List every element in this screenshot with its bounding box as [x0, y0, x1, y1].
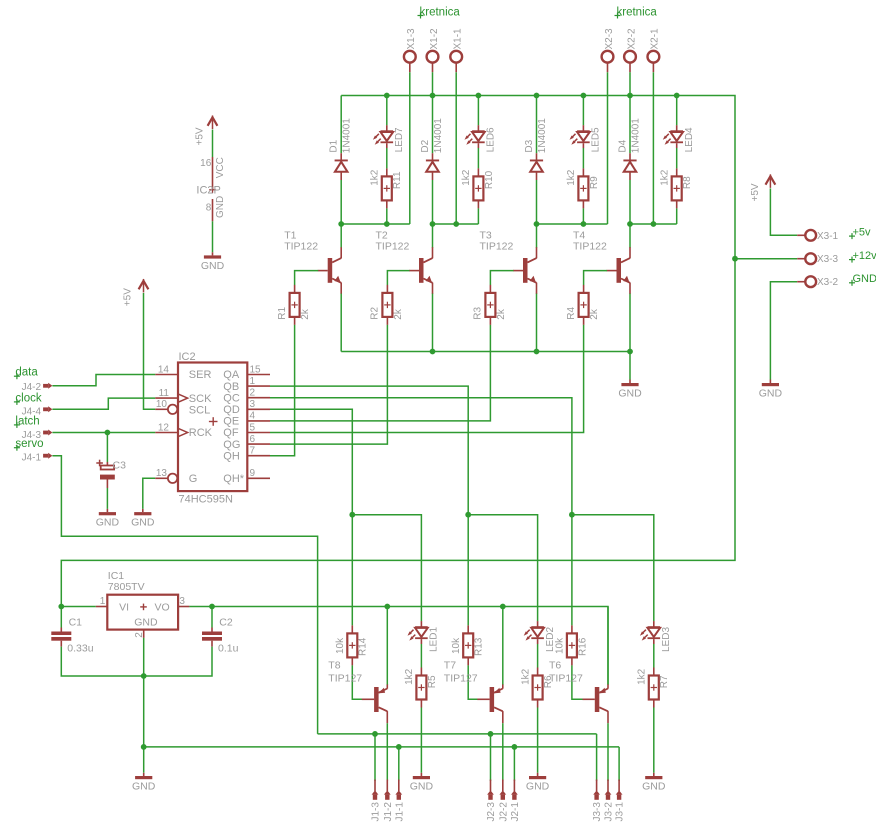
- connector pin J1-2: [384, 780, 391, 800]
- junction on +12V bus x=536.5: [534, 93, 540, 99]
- ground (R5): [410, 776, 434, 793]
- svg-text:SCK: SCK: [189, 393, 212, 405]
- svg-text:GND: GND: [131, 517, 155, 529]
- diode D1 1N4001: [335, 153, 348, 180]
- svg-text:J2-2: J2-2: [498, 802, 509, 822]
- net label data: [14, 367, 38, 380]
- svg-text:5: 5: [250, 422, 256, 433]
- svg-text:1N4001: 1N4001: [537, 118, 548, 153]
- +5V supply arrow (SCL pull): [122, 279, 148, 306]
- wire QE (pin4) to R3: [270, 325, 490, 421]
- junction emitter T3: [534, 349, 540, 355]
- wire +12V top bus: [341, 96, 735, 259]
- junction rail x=341.2: [338, 221, 344, 227]
- resistor R4 2k (base): [579, 285, 589, 325]
- svg-text:LED7: LED7: [394, 127, 405, 152]
- svg-text:3: 3: [250, 399, 256, 410]
- svg-text:2k: 2k: [589, 308, 600, 320]
- resistor R1 2k (base): [290, 285, 300, 325]
- svg-text:QF: QF: [223, 427, 239, 439]
- svg-text:1k2: 1k2: [404, 668, 415, 685]
- svg-text:T6: T6: [549, 660, 561, 672]
- svg-text:J1-3: J1-3: [371, 802, 382, 822]
- svg-text:J3-3: J3-3: [592, 802, 603, 822]
- ground (R6): [526, 776, 550, 793]
- junction T8 emitter: [384, 604, 390, 610]
- wire branch QC to LED3: [572, 515, 654, 622]
- wire C3 to gnd: [106, 488, 108, 509]
- transistor T8 TIP127 (PNP darlington): [362, 684, 388, 723]
- svg-text:1k2: 1k2: [370, 169, 381, 186]
- svg-text:GND: GND: [201, 260, 225, 272]
- svg-text:J2-1: J2-1: [510, 802, 521, 822]
- LED LED7: [373, 125, 393, 148]
- net label +12v (X3): [849, 250, 876, 263]
- wire base of T1 to R1: [295, 271, 319, 285]
- svg-text:C1: C1: [69, 617, 83, 629]
- transistor T4 TIP122 (NPN darlington): [607, 247, 631, 294]
- pin 3 VO: [178, 596, 189, 607]
- pin 4 (Q output): [247, 411, 270, 422]
- wire bus to LED7: [386, 96, 388, 126]
- svg-text:X2-1: X2-1: [650, 28, 661, 50]
- junction QB/LED2: [465, 512, 471, 518]
- resistor R16 10k (base): [567, 625, 577, 665]
- wire LED1 to R5: [420, 644, 422, 668]
- ground (emitter bus): [618, 383, 642, 400]
- svg-text:J1-1: J1-1: [394, 802, 405, 822]
- svg-text:QG: QG: [223, 439, 240, 451]
- ground (X3-2): [759, 383, 783, 400]
- wire bus to D1: [340, 96, 342, 154]
- connector pad X1-2: [427, 51, 439, 72]
- connector pad X2-3: [602, 51, 614, 72]
- wire collector rail T4: [630, 223, 677, 225]
- svg-text:C3: C3: [113, 459, 127, 471]
- pin 16 VCC (IC2P): [200, 157, 226, 190]
- connector pin J1-1: [395, 780, 402, 800]
- junction emitter T2: [430, 349, 436, 355]
- connector pin J3-1: [616, 780, 623, 800]
- pin stub R6 gnd: [537, 773, 539, 776]
- svg-text:7: 7: [250, 446, 256, 457]
- transistor T1 TIP122 (NPN darlington): [318, 247, 342, 294]
- junction on +12V bus x=676.7: [674, 93, 680, 99]
- svg-text:1k2: 1k2: [660, 169, 671, 186]
- svg-text:QA: QA: [223, 369, 240, 381]
- connector pin J4-2: [43, 383, 52, 389]
- connector pin J3-2: [605, 780, 612, 800]
- svg-text:+5V: +5V: [122, 288, 133, 306]
- wire R9 to rail: [582, 208, 584, 224]
- junction gnd J2-1: [512, 744, 518, 750]
- svg-text:X3-1: X3-1: [817, 231, 839, 242]
- svg-text:GND: GND: [132, 781, 156, 793]
- connector pin J4-1: [43, 453, 52, 459]
- wire base of T3 to R3: [490, 271, 513, 285]
- svg-text:TIP122: TIP122: [480, 241, 514, 253]
- svg-text:GND: GND: [215, 196, 226, 218]
- wire base of T2 to R2: [387, 271, 409, 285]
- net label kretnica (right): [615, 7, 658, 19]
- wire LED5 to R9: [582, 148, 584, 168]
- connector pad X2-2: [624, 51, 636, 72]
- svg-text:T7: T7: [444, 660, 456, 672]
- wire X2-2 to bus: [629, 72, 631, 95]
- ground (pin 13 G): [131, 512, 155, 529]
- svg-text:G: G: [189, 473, 198, 485]
- wire R14 to T8 base: [352, 665, 362, 699]
- LED LED1 (indicator): [408, 621, 428, 644]
- pin 11 SCK: [155, 388, 178, 399]
- wire rail to T2 collector: [432, 224, 434, 248]
- pin stub to gnd: [212, 252, 214, 255]
- svg-text:TIP122: TIP122: [573, 241, 607, 253]
- svg-text:LED1: LED1: [429, 627, 440, 652]
- wire J3-1 drop: [618, 747, 620, 781]
- svg-text:10k: 10k: [451, 637, 462, 654]
- wire rail to T4 collector: [629, 224, 631, 248]
- svg-text:14: 14: [158, 364, 170, 375]
- pin stub G gnd: [142, 509, 144, 512]
- junction C2 top: [209, 604, 215, 610]
- resistor R9 1k2: [578, 168, 588, 208]
- wire bus to D2: [432, 96, 434, 154]
- svg-text:SCL: SCL: [189, 404, 210, 416]
- svg-text:X3-3: X3-3: [817, 254, 839, 265]
- svg-text:QH: QH: [223, 450, 240, 462]
- wire QF (pin5) to R4: [270, 325, 584, 433]
- wire T8 collector to J1-2: [386, 723, 388, 781]
- svg-text:QE: QE: [223, 416, 239, 428]
- svg-text:1: 1: [250, 376, 256, 387]
- wire R16 to T6 base: [572, 665, 583, 699]
- svg-text:D4: D4: [617, 139, 628, 152]
- svg-text:IC2: IC2: [179, 351, 196, 363]
- svg-text:1N4001: 1N4001: [433, 118, 444, 153]
- net label +5v (X3): [849, 227, 871, 240]
- wire clock: J4-4 to SCK: [52, 398, 155, 409]
- svg-text:J2-3: J2-3: [486, 802, 497, 822]
- net label clock: [14, 392, 42, 405]
- pin stub R5 gnd: [420, 773, 422, 776]
- wire G (pin13) to gnd: [143, 478, 155, 509]
- wire LED4 to R8: [676, 148, 678, 168]
- svg-text:TIP122: TIP122: [376, 241, 410, 253]
- wire QH (pin7) to R1: [270, 325, 295, 456]
- pin stub R7 gnd: [653, 773, 655, 776]
- capacitor C1 0.33u: [51, 617, 93, 655]
- wire X1-3 to rail T1: [409, 72, 411, 224]
- wire branch QD to LED1: [352, 515, 421, 622]
- svg-text:GND: GND: [759, 388, 783, 400]
- pin 1 (Q output): [247, 376, 270, 387]
- svg-text:R13: R13: [474, 637, 485, 656]
- wire D3 to rail: [536, 180, 538, 224]
- svg-text:VCC: VCC: [215, 157, 226, 178]
- pin red stub emitter gnd: [629, 380, 631, 384]
- resistor R10 1k2: [473, 168, 483, 208]
- wire emitter bus T1-T4: [341, 351, 630, 353]
- svg-text:16: 16: [200, 158, 212, 169]
- svg-text:R7: R7: [659, 675, 670, 688]
- svg-text:1k2: 1k2: [637, 668, 648, 685]
- net label kretnica (left): [418, 7, 461, 19]
- connector pin J4-4: [43, 406, 52, 412]
- pin 14 SER: [155, 364, 178, 375]
- part IC2P origin: [196, 184, 220, 196]
- wire rail to T1 collector: [340, 224, 342, 248]
- svg-text:TIP122: TIP122: [284, 241, 318, 253]
- wire bus to D4: [629, 96, 631, 154]
- wire +5V rail from VO: [189, 607, 608, 685]
- wire IC1 GND down: [143, 638, 145, 773]
- wire R11 to rail: [386, 208, 388, 224]
- LED LED6: [465, 125, 485, 148]
- wire C2 column: [211, 607, 213, 628]
- svg-text:GND: GND: [96, 517, 120, 529]
- wire latch: J4-3 to RCK: [52, 432, 155, 434]
- svg-text:TIP127: TIP127: [549, 673, 583, 685]
- transistor T7 TIP127 (PNP darlington): [477, 684, 503, 723]
- junction latch / C3: [105, 430, 111, 436]
- wire collector rail T1: [341, 223, 410, 225]
- connector pin J4-3: [43, 430, 52, 436]
- svg-text:VI: VI: [119, 601, 129, 613]
- wire bus to LED4: [676, 96, 678, 126]
- connector pad X1-1: [450, 51, 462, 72]
- svg-text:LED6: LED6: [486, 127, 497, 152]
- svg-text:0.33u: 0.33u: [67, 643, 93, 655]
- diode D3 1N4001: [530, 153, 543, 180]
- pin 2 (Q output): [247, 388, 270, 399]
- wire J2-1 drop: [513, 747, 515, 781]
- ground (C3): [96, 512, 120, 529]
- wire LED6 to R10: [477, 148, 479, 168]
- connector pad X2-1: [648, 51, 660, 72]
- svg-text:GND: GND: [526, 781, 550, 793]
- svg-text:6: 6: [250, 434, 256, 445]
- junction on +12V bus x=432.5: [430, 93, 436, 99]
- capacitor C3 (polarized): [96, 459, 126, 488]
- junction emitter bus GND drop: [627, 349, 633, 355]
- wire bus to D3: [536, 96, 538, 154]
- capacitor C2 0.1u: [202, 617, 239, 655]
- svg-text:1N4001: 1N4001: [630, 118, 641, 153]
- junction QC/LED3: [569, 512, 575, 518]
- resistor R8 1k2: [672, 168, 682, 208]
- svg-text:D3: D3: [524, 139, 535, 152]
- connector pin J2-2: [499, 780, 506, 800]
- junction C1/VI: [58, 604, 64, 610]
- svg-text:1: 1: [100, 596, 106, 607]
- resistor R5 1k2: [416, 668, 426, 708]
- wire J1-1 drop: [398, 747, 400, 781]
- junction on +12V bus x=630.0: [627, 93, 633, 99]
- wire X3-2 to gnd: [770, 282, 797, 380]
- connector pad X3-3: [797, 253, 816, 264]
- svg-text:1N4001: 1N4001: [342, 118, 353, 153]
- wire X3-3 stub: [735, 258, 797, 260]
- svg-text:LED3: LED3: [661, 627, 672, 652]
- svg-text:R5: R5: [427, 675, 438, 688]
- svg-text:1k2: 1k2: [461, 169, 472, 186]
- wire R10 to rail: [477, 208, 479, 224]
- junction T7 emitter: [500, 604, 506, 610]
- svg-text:11: 11: [159, 388, 170, 399]
- wire X2-3 to rail T3: [607, 72, 609, 224]
- ground (IC2P): [201, 255, 225, 272]
- wire rail to T3 collector: [536, 224, 538, 248]
- wire T6 collector to J3-2: [607, 723, 609, 781]
- pin 15 (Q output): [247, 364, 270, 375]
- wire base of T4 to R4: [584, 271, 607, 285]
- svg-text:9: 9: [250, 468, 256, 479]
- voltage regulator IC1 7805TV: [107, 570, 178, 630]
- wire latch to C3: [106, 433, 108, 463]
- svg-text:QC: QC: [223, 392, 240, 404]
- connector pad X3-1: [797, 230, 816, 241]
- svg-text:J3-1: J3-1: [615, 802, 626, 822]
- wire J3-3 drop: [596, 734, 598, 781]
- svg-text:R16: R16: [577, 637, 588, 656]
- connector pad X1-3: [404, 51, 416, 72]
- wire IC2P GND down: [212, 221, 214, 252]
- svg-text:GND: GND: [618, 388, 642, 400]
- svg-text:10k: 10k: [335, 637, 346, 654]
- connector pin J3-3: [593, 780, 600, 800]
- pin 1 VI: [96, 596, 108, 607]
- svg-text:3: 3: [179, 596, 185, 607]
- svg-text:8: 8: [206, 203, 212, 214]
- LED LED5: [570, 125, 590, 148]
- svg-text:10: 10: [156, 399, 168, 410]
- wire LED3 to R7: [653, 644, 655, 668]
- pin 8 GND (IC2P): [206, 196, 226, 222]
- wire +5V to SCL pin 10: [144, 293, 156, 409]
- svg-text:J4-1: J4-1: [22, 453, 42, 464]
- connector pin J1-3: [372, 780, 379, 800]
- junction gnd J1-1: [396, 744, 402, 750]
- op-amp U1 equivalent: shift register IC2 74HC595N: [168, 351, 247, 506]
- pin 9 (Q output): [247, 468, 270, 479]
- wire C1 bottom to C2 bottom: [61, 647, 212, 676]
- pin 13 G: [155, 468, 168, 479]
- resistor R7 1k2: [649, 668, 659, 708]
- connector pin J2-3: [487, 780, 494, 800]
- junction rail x=653.4: [651, 221, 657, 227]
- svg-text:LED4: LED4: [684, 127, 695, 152]
- pin 5 (Q output): [247, 422, 270, 433]
- connector pad X3-2: [797, 276, 816, 287]
- connector pin J2-1: [511, 780, 518, 800]
- wire T7 emitter up: [502, 607, 504, 685]
- LED LED4: [663, 125, 683, 148]
- wire T3 emitter to emitter bus: [536, 294, 538, 352]
- svg-text:15: 15: [250, 364, 262, 375]
- svg-text:12: 12: [158, 422, 170, 433]
- junction on +12V bus x=478.4: [476, 93, 482, 99]
- svg-text:X1-2: X1-2: [429, 28, 440, 50]
- svg-text:GND: GND: [134, 616, 158, 628]
- wire branch QB to LED2: [468, 515, 537, 622]
- svg-text:+12v: +12v: [853, 250, 876, 262]
- wire T2 emitter to emitter bus: [432, 294, 434, 352]
- junction servo J1-3: [372, 731, 378, 737]
- resistor R13 10k (base): [463, 625, 473, 665]
- svg-text:R2: R2: [370, 306, 381, 319]
- svg-text:13: 13: [156, 468, 168, 479]
- wire +12V feed (X3-3 to 7805 input): [61, 259, 735, 607]
- wire X3-1 to +5V: [770, 188, 797, 235]
- wire emitter bus to ground: [629, 352, 631, 380]
- wire D2 to rail: [432, 180, 434, 224]
- wire LED2 to R6: [537, 644, 539, 668]
- diode D4 1N4001: [623, 153, 636, 180]
- net label servo: [14, 438, 44, 451]
- junction rail x=432.5: [430, 221, 436, 227]
- svg-text:0.1u: 0.1u: [218, 643, 239, 655]
- wire X2-1 to rail T4: [652, 72, 654, 224]
- svg-text:LED5: LED5: [591, 127, 602, 152]
- svg-text:R1: R1: [277, 306, 288, 319]
- pin 2 GND: [134, 630, 145, 638]
- svg-text:kretnica: kretnica: [420, 7, 461, 19]
- wire collector rail T3: [537, 223, 608, 225]
- svg-text:4: 4: [250, 411, 256, 422]
- junction on +12V bus x=583.4: [581, 93, 587, 99]
- svg-text:TIP127: TIP127: [444, 673, 478, 685]
- svg-text:R11: R11: [392, 171, 403, 189]
- diode D2 1N4001: [426, 153, 439, 180]
- svg-text:J3-2: J3-2: [604, 802, 615, 822]
- svg-text:GND: GND: [410, 781, 434, 793]
- resistor R14 10k (base): [347, 625, 357, 665]
- wire QB (pin1) to R13 column: [270, 386, 468, 625]
- ground (R7): [642, 776, 666, 793]
- pin stub C3 gnd: [106, 509, 108, 512]
- wire T8 emitter up: [386, 607, 388, 685]
- net label latch: [14, 415, 40, 428]
- wire X1-2 to bus: [432, 72, 434, 95]
- wire R6 to gnd: [537, 708, 539, 773]
- wire T4 emitter to emitter bus: [629, 294, 631, 352]
- pin stub X3-2 gnd: [769, 380, 771, 384]
- svg-text:2: 2: [250, 388, 256, 399]
- wire T6 emitter up: [607, 607, 609, 685]
- svg-text:74HC595N: 74HC595N: [179, 494, 233, 506]
- junction rail x=583.4: [581, 221, 587, 227]
- pin 10 SCL: [155, 399, 168, 410]
- svg-text:R3: R3: [473, 306, 484, 319]
- junction servo J2-3: [488, 731, 494, 737]
- svg-text:RCK: RCK: [189, 427, 213, 439]
- wire QD (pin3) to R14 column: [270, 409, 352, 625]
- wire R8 to rail: [676, 208, 678, 224]
- svg-text:T8: T8: [328, 660, 340, 672]
- svg-text:R14: R14: [358, 637, 369, 656]
- wire T7 collector to J2-2: [502, 723, 504, 781]
- svg-text:1k2: 1k2: [520, 668, 531, 685]
- wire T1 emitter to emitter bus: [340, 294, 342, 352]
- junction rail x=630.0: [627, 221, 633, 227]
- wire gnd bus to J pins: [144, 746, 619, 748]
- svg-text:IC2P: IC2P: [196, 184, 220, 196]
- svg-text:VO: VO: [155, 601, 170, 613]
- transistor T6 TIP127 (PNP darlington): [583, 684, 609, 723]
- svg-text:QB: QB: [223, 381, 239, 393]
- svg-text:J1-2: J1-2: [383, 802, 394, 822]
